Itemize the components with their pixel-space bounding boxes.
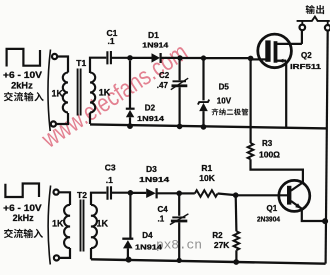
- node A junction dot: [127, 55, 133, 61]
- svg-text:+6 - 10V: +6 - 10V: [3, 203, 42, 213]
- wire terminal to T1 primary top: [57, 57, 68, 73]
- resistor R1: [195, 190, 218, 197]
- svg-text:1K: 1K: [99, 88, 111, 98]
- wire R1 to node F: [218, 194, 236, 196]
- label 输出: [306, 5, 324, 14]
- source rail (top circuit common): [90, 124, 327, 128]
- wire T2 secondary bottom: [90, 248, 92, 259]
- label 交流输入 (bottom): [4, 229, 43, 238]
- wire T1 secondary bottom: [89, 113, 91, 125]
- svg-text:1N914: 1N914: [142, 41, 169, 50]
- svg-text:1K: 1K: [97, 219, 109, 229]
- node B junction dot: [177, 55, 182, 60]
- node D4-rail junction dot: [126, 257, 132, 263]
- wire node C to gate node: [204, 57, 251, 59]
- wire node E to R1: [179, 192, 195, 194]
- svg-text:Q2: Q2: [301, 51, 312, 60]
- svg-text:D4: D4: [142, 231, 153, 240]
- svg-text:1N914: 1N914: [135, 242, 163, 251]
- diode D2: [126, 61, 135, 126]
- wire node B to node C: [180, 57, 204, 59]
- transformer T1: [63, 69, 95, 116]
- node C4-rail junction dot: [177, 258, 182, 263]
- wire to T2 primary top: [59, 192, 70, 205]
- svg-text:10K: 10K: [199, 173, 215, 183]
- wire C1 to node A: [111, 57, 130, 59]
- wire R2 to bottom rail: [235, 250, 237, 261]
- svg-text:100Ω: 100Ω: [259, 150, 281, 159]
- node emitter-rail junction dot: [322, 218, 328, 224]
- svg-text:+6 - 10V: +6 - 10V: [3, 70, 42, 80]
- output right rail: [326, 31, 328, 264]
- svg-text:.1: .1: [108, 36, 115, 46]
- capacitor C4: [170, 193, 189, 260]
- wire node D to D3: [130, 192, 146, 194]
- node F junction dot: [233, 192, 239, 198]
- transistor Q2: [258, 34, 302, 68]
- svg-text:T2: T2: [77, 190, 87, 200]
- svg-text:C3: C3: [105, 162, 116, 172]
- input brace (top): [48, 50, 51, 132]
- node C junction dot: [201, 55, 206, 60]
- wire C3 to node D: [111, 192, 130, 194]
- wire to T2 primary bottom: [59, 248, 70, 258]
- node D5-rail junction dot: [201, 124, 207, 130]
- svg-text:1K: 1K: [52, 89, 64, 99]
- svg-text:2kHz: 2kHz: [13, 213, 34, 223]
- svg-text:10V: 10V: [217, 96, 232, 105]
- output line: [297, 17, 330, 21]
- node D junction dot: [128, 190, 134, 196]
- wire Q1 emitter to right rail: [302, 209, 325, 221]
- svg-text:R2: R2: [212, 231, 223, 240]
- label 交流输入 (top): [4, 92, 44, 101]
- svg-text:.1: .1: [106, 175, 113, 185]
- wire T1 secondary top to C1: [90, 58, 106, 73]
- transformer T2: [64, 200, 97, 252]
- svg-text:Q1: Q1: [267, 204, 278, 213]
- wire D1 to node B: [161, 57, 180, 59]
- wire gate node to Q2 gate: [251, 58, 266, 60]
- node C2-rail junction dot: [177, 124, 183, 130]
- input terminal bottom (bottom source): [54, 255, 59, 260]
- capacitor C1: [107, 51, 111, 64]
- svg-text:1N914: 1N914: [137, 114, 165, 123]
- svg-text:C4: C4: [158, 205, 169, 214]
- output terminal left: [300, 21, 306, 30]
- input terminal top-left: [52, 54, 57, 59]
- svg-text:IRF511: IRF511: [290, 62, 321, 71]
- svg-text:D1: D1: [148, 30, 159, 40]
- wire node A to D1: [130, 57, 152, 59]
- svg-text:27K: 27K: [214, 241, 230, 250]
- capacitor C2: [171, 58, 188, 126]
- wire Q2 drain to output terminal: [301, 31, 303, 44]
- node R2-rail junction dot: [233, 259, 239, 265]
- svg-text:2N3904: 2N3904: [257, 216, 280, 223]
- resistor R3: [248, 143, 254, 159]
- svg-text:T1: T1: [76, 58, 86, 68]
- wire D3 to node E: [157, 192, 180, 194]
- diode D1: [152, 53, 161, 63]
- svg-text:D2: D2: [145, 104, 156, 113]
- diode D4: [122, 193, 133, 260]
- svg-text:2kHz: 2kHz: [11, 80, 33, 90]
- wire node F down to R2: [235, 195, 238, 231]
- svg-text:D5: D5: [219, 83, 230, 92]
- wire Q2 source down to rail: [285, 61, 287, 128]
- gate node junction dot: [248, 56, 254, 62]
- resistor R2: [234, 231, 240, 250]
- ground rail (bottom circuit common): [91, 259, 326, 263]
- capacitor C3: [108, 186, 112, 200]
- wire R3 to Q1 collector: [251, 159, 303, 183]
- svg-text:.47: .47: [157, 81, 169, 90]
- wire T2 secondary top to C3: [91, 193, 106, 205]
- svg-text:R1: R1: [201, 163, 212, 173]
- square wave source 1 icon: [7, 49, 40, 67]
- zener diode D5: [198, 58, 209, 127]
- label 齐纳二极管: [212, 108, 249, 115]
- wire gate node down to R3: [250, 58, 252, 143]
- svg-text:.1: .1: [158, 215, 165, 224]
- svg-text:D3: D3: [146, 164, 157, 174]
- watermark px8.cn: [156, 238, 202, 253]
- svg-text:R3: R3: [262, 139, 273, 148]
- square wave source 2 icon: [5, 184, 39, 198]
- svg-text:1N914: 1N914: [139, 175, 170, 184]
- output terminal right: [325, 21, 330, 30]
- svg-text:1K: 1K: [52, 219, 64, 229]
- watermark www.elecfans.com: [36, 38, 193, 154]
- node D2-rail junction dot: [127, 123, 133, 129]
- input brace (bottom): [48, 186, 50, 265]
- input terminal bottom-left: [51, 121, 56, 126]
- transistor Q1: [279, 180, 310, 211]
- wire terminal to T1 primary bottom: [56, 113, 68, 124]
- wire node F to Q1 base: [236, 194, 288, 196]
- svg-text:C2: C2: [159, 71, 170, 80]
- input terminal top (bottom source): [54, 190, 59, 195]
- node E junction dot: [176, 191, 182, 197]
- diode D3: [146, 188, 156, 198]
